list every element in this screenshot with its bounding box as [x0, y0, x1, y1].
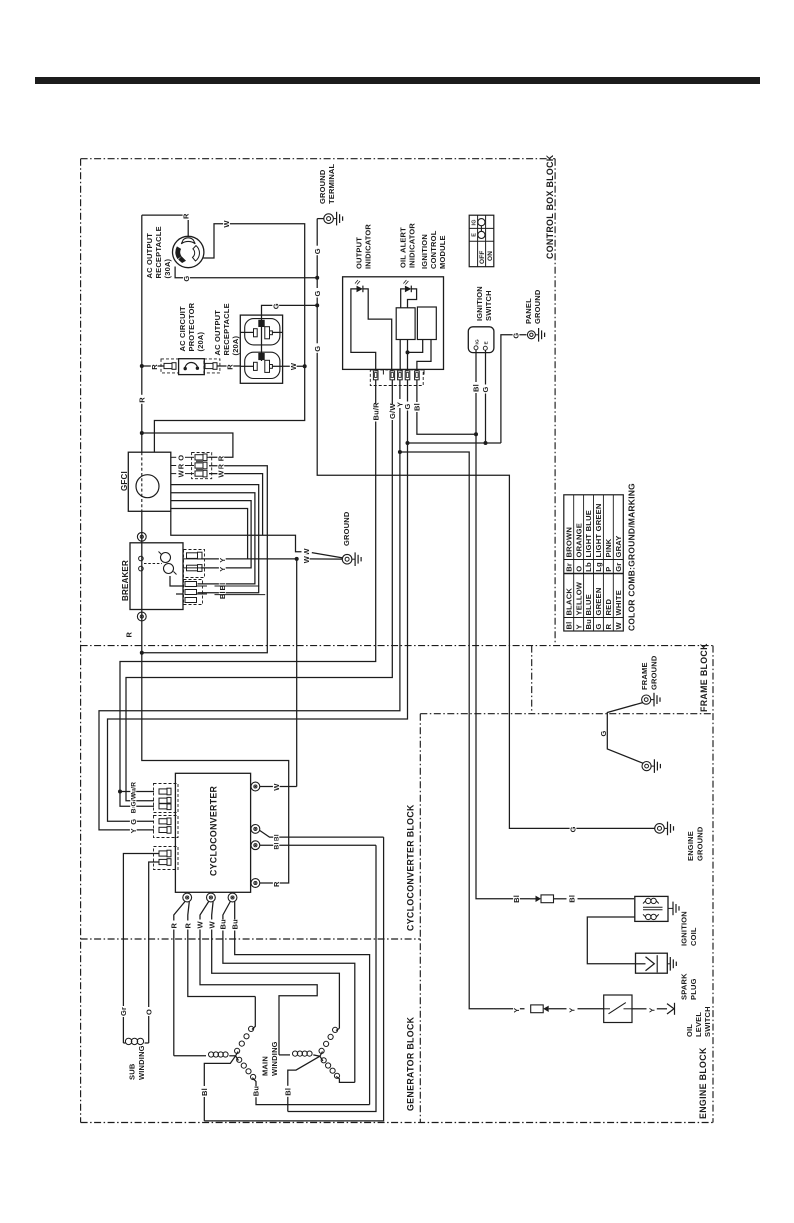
svg-text:MAIN: MAIN	[261, 1056, 270, 1076]
svg-text:OIL ALERT: OIL ALERT	[399, 227, 408, 268]
svg-text:Bl: Bl	[274, 842, 281, 849]
svg-text:G: G	[313, 248, 322, 254]
svg-text:FRAME BLOCK: FRAME BLOCK	[699, 643, 709, 712]
svg-text:ENGINE: ENGINE	[686, 831, 695, 861]
svg-text:Gr: Gr	[614, 563, 623, 572]
svg-text:Gr: Gr	[119, 1007, 128, 1016]
svg-text:Bl: Bl	[413, 403, 422, 411]
svg-text:OIL: OIL	[685, 1024, 694, 1037]
svg-text:R: R	[217, 455, 226, 461]
svg-text:Bl: Bl	[200, 1088, 209, 1096]
svg-text:G: G	[512, 333, 521, 339]
svg-text:PANEL: PANEL	[524, 298, 533, 324]
svg-text:RECEPTACLE: RECEPTACLE	[154, 226, 163, 278]
svg-text:G: G	[271, 303, 280, 309]
svg-text:G/W: G/W	[131, 792, 138, 806]
svg-text:W: W	[614, 622, 623, 630]
svg-text:IGNITION: IGNITION	[680, 911, 689, 946]
svg-text:BROWN: BROWN	[564, 527, 573, 558]
svg-text:AC CIRCUIT: AC CIRCUIT	[178, 306, 187, 352]
svg-text:Br: Br	[564, 563, 573, 572]
svg-text:G: G	[599, 730, 608, 736]
svg-text:INIDICATOR: INIDICATOR	[408, 223, 417, 268]
svg-text:(20A): (20A)	[196, 331, 205, 351]
svg-text:OFF: OFF	[479, 250, 486, 264]
svg-text:PLUG: PLUG	[689, 978, 698, 1000]
svg-text:W: W	[217, 470, 226, 478]
svg-text:R: R	[177, 463, 186, 469]
svg-text:E: E	[484, 341, 490, 345]
svg-text:Bu: Bu	[252, 1086, 261, 1097]
svg-text:GENERATOR BLOCK: GENERATOR BLOCK	[406, 1016, 416, 1111]
svg-text:PROTECTOR: PROTECTOR	[187, 302, 196, 351]
svg-text:Bl: Bl	[512, 895, 521, 903]
svg-text:W: W	[177, 469, 186, 477]
svg-text:Y: Y	[218, 566, 227, 571]
svg-text:Lg: Lg	[594, 562, 603, 572]
svg-text:BLUE: BLUE	[584, 594, 593, 615]
svg-text:P: P	[604, 567, 613, 572]
svg-text:RECEPTACLE: RECEPTACLE	[222, 303, 231, 355]
svg-text:GROUND: GROUND	[342, 511, 351, 546]
svg-text:G: G	[182, 276, 191, 282]
svg-text:OUTPUT: OUTPUT	[355, 237, 364, 269]
svg-text:Y: Y	[567, 1008, 576, 1013]
svg-text:Y: Y	[129, 828, 138, 833]
svg-text:O: O	[574, 566, 583, 572]
svg-text:IGNITION: IGNITION	[420, 234, 429, 269]
svg-text:LIGHT GREEN: LIGHT GREEN	[594, 503, 603, 557]
svg-text:GREEN: GREEN	[594, 587, 603, 615]
svg-text:W: W	[222, 220, 231, 228]
svg-text:LEVEL: LEVEL	[694, 1012, 703, 1037]
svg-text:WINDING: WINDING	[270, 1041, 279, 1076]
svg-text:GROUND: GROUND	[696, 826, 705, 861]
svg-text:W: W	[289, 362, 298, 370]
svg-text:G: G	[313, 290, 322, 296]
svg-text:G: G	[403, 403, 412, 409]
svg-text:(30A): (30A)	[163, 258, 172, 278]
svg-text:GROUND: GROUND	[318, 169, 327, 204]
svg-text:G: G	[569, 826, 578, 832]
svg-text:R: R	[226, 364, 235, 370]
svg-text:Y: Y	[647, 1008, 656, 1013]
svg-text:LIGHT BLUE: LIGHT BLUE	[584, 510, 593, 558]
svg-text:R: R	[170, 923, 179, 929]
svg-text:YELLOW: YELLOW	[574, 581, 583, 615]
svg-text:GROUND: GROUND	[650, 655, 659, 690]
svg-text:Bu: Bu	[584, 619, 593, 630]
svg-text:RED: RED	[604, 599, 613, 616]
svg-text:(20A): (20A)	[231, 335, 240, 355]
svg-text:FRAME: FRAME	[640, 662, 649, 690]
svg-text:TERMINAL: TERMINAL	[327, 163, 336, 204]
svg-text:CYCLOCONVERTER BLOCK: CYCLOCONVERTER BLOCK	[406, 804, 416, 931]
svg-text:CONTROL BOX BLOCK: CONTROL BOX BLOCK	[545, 154, 555, 259]
svg-text:GFCI: GFCI	[120, 471, 129, 491]
svg-text:Y: Y	[512, 1008, 521, 1013]
svg-text:Y: Y	[574, 624, 583, 629]
svg-text:G: G	[481, 386, 490, 392]
svg-text:G: G	[594, 623, 603, 629]
svg-text:AC OUTPUT: AC OUTPUT	[213, 310, 222, 356]
svg-text:R: R	[150, 364, 159, 370]
svg-text:W: W	[207, 921, 216, 929]
svg-text:Bl: Bl	[218, 591, 227, 599]
svg-text:O: O	[177, 455, 186, 461]
svg-text:Bu: Bu	[230, 919, 239, 930]
svg-text:WINDING: WINDING	[137, 1045, 146, 1080]
svg-text:GROUND: GROUND	[533, 289, 542, 324]
svg-text:Bl: Bl	[567, 895, 576, 903]
svg-text:IG: IG	[475, 339, 481, 345]
svg-text:Lb: Lb	[584, 562, 593, 572]
svg-text:CONTROL: CONTROL	[429, 230, 438, 269]
svg-text:R: R	[125, 632, 134, 638]
svg-text:COIL: COIL	[689, 927, 698, 946]
svg-text:BREAKER: BREAKER	[121, 560, 130, 601]
svg-text:Bl: Bl	[284, 1088, 293, 1096]
svg-text:COLOR COMB:GROUND/MARKING: COLOR COMB:GROUND/MARKING	[627, 483, 637, 631]
svg-text:R: R	[272, 881, 281, 887]
svg-text:ORANGE: ORANGE	[574, 523, 583, 558]
svg-text:MODULE: MODULE	[438, 235, 447, 269]
svg-text:ON: ON	[487, 251, 494, 261]
svg-text:SPARK: SPARK	[680, 973, 689, 1000]
svg-text:INIDICATOR: INIDICATOR	[364, 224, 373, 269]
svg-text:SWITCH: SWITCH	[703, 1006, 712, 1037]
svg-text:WHITE: WHITE	[614, 590, 623, 615]
svg-text:R: R	[184, 923, 193, 929]
svg-text:G: G	[313, 346, 322, 352]
svg-text:Bl: Bl	[564, 622, 573, 630]
svg-text:AC OUTPUT: AC OUTPUT	[145, 233, 154, 279]
svg-text:ENGINE BLOCK: ENGINE BLOCK	[698, 1047, 708, 1119]
svg-text:SWITCH: SWITCH	[484, 290, 493, 321]
svg-text:W: W	[196, 921, 205, 929]
svg-text:Bu: Bu	[219, 919, 228, 930]
svg-text:Bl: Bl	[218, 583, 227, 591]
svg-text:R: R	[604, 624, 613, 630]
svg-text:R: R	[182, 213, 191, 219]
svg-text:Bl: Bl	[472, 384, 481, 392]
svg-text:Bu/R: Bu/R	[371, 402, 380, 421]
svg-text:CYCLOCONVERTER: CYCLOCONVERTER	[209, 785, 219, 876]
svg-text:Bl: Bl	[274, 834, 281, 841]
svg-text:BLACK: BLACK	[564, 588, 573, 616]
svg-text:SUB: SUB	[128, 1063, 137, 1080]
svg-text:GRAY: GRAY	[614, 535, 623, 557]
svg-text:R: R	[138, 397, 147, 403]
svg-text:G: G	[129, 819, 138, 825]
svg-text:PINK: PINK	[604, 538, 613, 557]
svg-text:W: W	[302, 555, 311, 563]
svg-text:O: O	[144, 1009, 153, 1015]
svg-text:IG: IG	[471, 219, 477, 225]
svg-text:Y: Y	[218, 557, 227, 562]
svg-text:IGNITION: IGNITION	[475, 286, 484, 321]
svg-text:W: W	[272, 783, 281, 791]
svg-text:E: E	[471, 233, 477, 237]
